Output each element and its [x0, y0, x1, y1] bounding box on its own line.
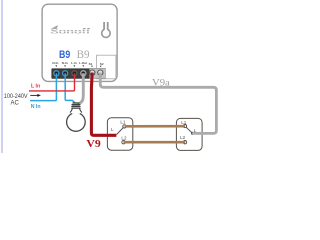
svg-text:L1: L1	[120, 120, 126, 125]
svg-text:N-In: N-In	[62, 61, 68, 65]
svg-text:N In: N In	[31, 104, 41, 110]
svg-text:V9: V9	[86, 138, 101, 150]
svg-text:L2: L2	[121, 135, 127, 140]
svg-text:L1: L1	[181, 120, 187, 125]
svg-text:L: L	[111, 127, 114, 132]
svg-text:L In: L In	[31, 83, 40, 89]
svg-text:L2: L2	[180, 135, 186, 140]
svg-text:B9: B9	[77, 49, 90, 61]
svg-text:V9a: V9a	[152, 78, 171, 88]
svg-text:B9: B9	[59, 49, 70, 61]
svg-text:L-In: L-In	[71, 61, 77, 65]
svg-text:AC: AC	[11, 101, 20, 107]
svg-text:S2: S2	[100, 62, 104, 66]
svg-text:S1: S1	[89, 62, 93, 66]
svg-text:100-240V: 100-240V	[4, 94, 28, 100]
svg-text:N-In: N-In	[52, 61, 58, 65]
svg-text:L-Out: L-Out	[79, 61, 87, 65]
